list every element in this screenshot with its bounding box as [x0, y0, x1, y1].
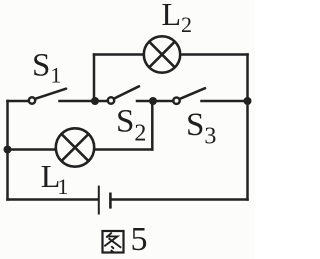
svg-text:5: 5 — [131, 221, 148, 258]
